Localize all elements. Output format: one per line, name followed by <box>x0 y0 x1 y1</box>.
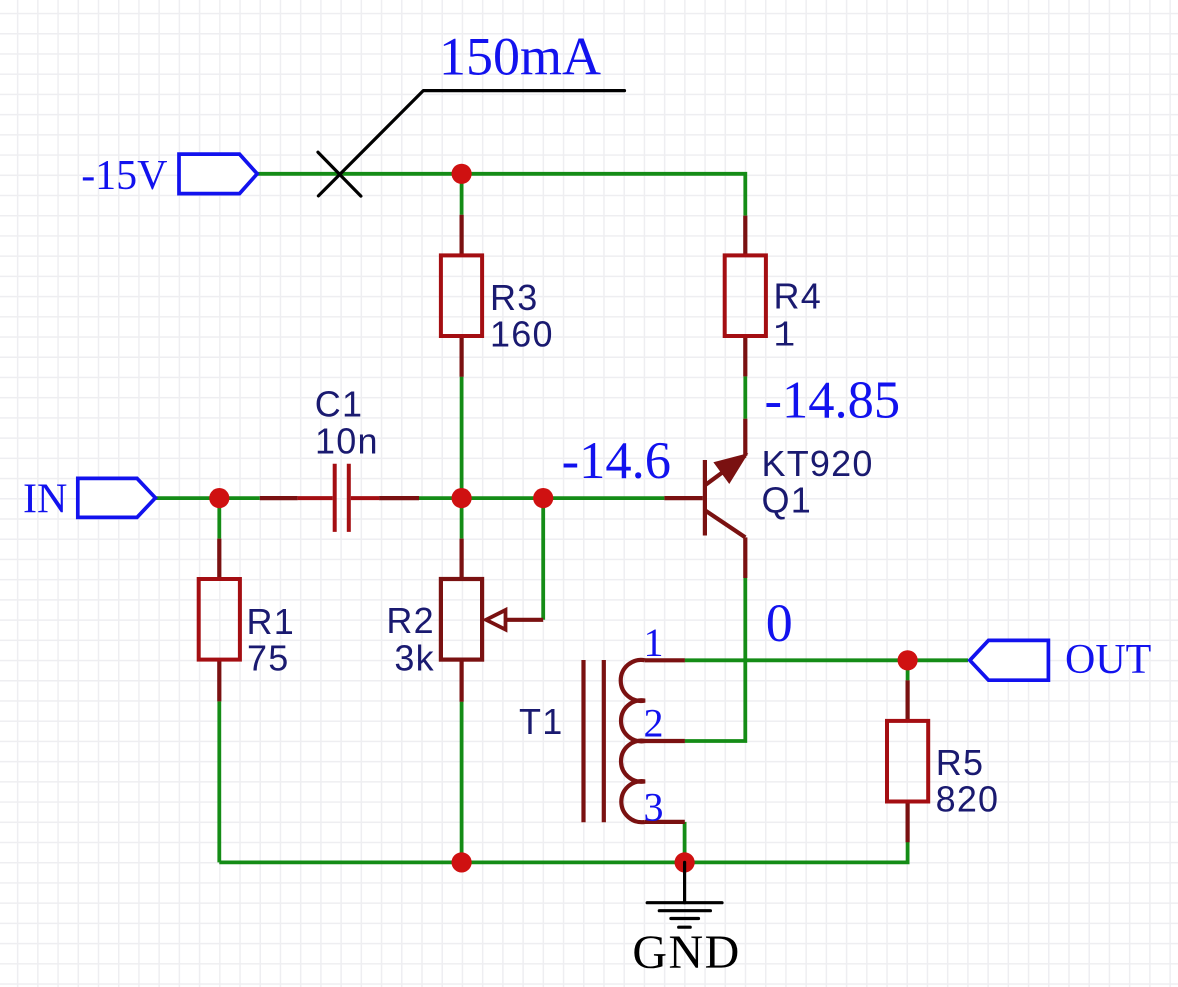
capacitor C1 plates and leads <box>335 464 349 532</box>
svg-text:-14.85: -14.85 <box>765 371 901 429</box>
transistor Q1 arrow <box>715 455 745 482</box>
svg-text:R2: R2 <box>386 600 434 641</box>
svg-text:GND: GND <box>632 926 741 979</box>
junction dot at wiper tap <box>533 488 553 508</box>
wire T1 pin3 to bus <box>683 822 687 863</box>
svg-text:-14.6: -14.6 <box>562 432 671 490</box>
wiper arrow of R2 <box>486 610 506 630</box>
svg-text:3k: 3k <box>394 638 434 679</box>
transistor Q1 base pin <box>664 496 702 500</box>
resistor R3 <box>441 255 482 336</box>
wire emitter to T1 pin2 <box>685 578 746 741</box>
wire bottom bus to R5 <box>219 842 907 863</box>
resistor R3 pins <box>460 215 464 377</box>
transformer T1 pin 1 lead <box>645 658 685 662</box>
svg-text:150mA: 150mA <box>439 27 601 87</box>
svg-text:-15V: -15V <box>81 153 167 199</box>
svg-text:R3: R3 <box>490 277 538 318</box>
svg-text:75: 75 <box>247 638 289 679</box>
wire T1 pin1 to OUT <box>685 658 968 662</box>
wire R3 bottom to mid node <box>460 377 464 499</box>
resistor R4 <box>725 255 766 336</box>
ground symbol stem <box>683 862 686 902</box>
svg-text:10n: 10n <box>315 420 379 461</box>
svg-text:820: 820 <box>936 778 1000 819</box>
wire R2 bottom to bus <box>460 702 464 863</box>
svg-text:C1: C1 <box>315 384 363 425</box>
probe X marker <box>318 152 361 196</box>
svg-text:3: 3 <box>644 784 664 829</box>
wire R4 bottom to collector <box>743 376 747 419</box>
transformer T1 pin 2 lead <box>645 739 685 743</box>
junction dot OUT / R5 <box>898 650 918 670</box>
port OUT <box>970 640 1049 680</box>
svg-text:2: 2 <box>644 701 664 746</box>
potentiometer R2 <box>441 579 482 660</box>
potentiometer R2 pins <box>460 539 464 702</box>
wire R1 bottom to bus <box>217 701 221 862</box>
resistor R1 <box>199 579 240 660</box>
junction dot bus / GND <box>675 852 695 872</box>
resistor R5 pins <box>905 680 909 842</box>
svg-text:IN: IN <box>23 477 67 523</box>
svg-text:R5: R5 <box>936 742 984 783</box>
svg-text:KT920: KT920 <box>762 443 874 484</box>
junction dot bus / R2 <box>452 852 472 872</box>
wiper arm of R2 <box>505 618 543 622</box>
svg-text:T1: T1 <box>519 701 563 742</box>
transistor Q1 collector pin <box>743 419 747 456</box>
svg-text:160: 160 <box>490 313 554 354</box>
transformer T1 pin 3 lead <box>645 820 685 824</box>
transformer T1 winding <box>621 660 645 822</box>
svg-text:Q1: Q1 <box>762 479 812 520</box>
svg-text:1: 1 <box>644 620 664 665</box>
wire wiper drop <box>541 498 545 620</box>
svg-text:R1: R1 <box>247 601 295 642</box>
junction dot at mid node R3/R2 <box>452 488 472 508</box>
wire R2 top stub <box>460 498 464 538</box>
wire R5 top stub <box>906 660 910 680</box>
svg-text:R4: R4 <box>774 276 822 317</box>
transformer T1 core <box>584 660 604 822</box>
junction dot at IN / R1 <box>209 488 229 508</box>
port IN <box>78 478 156 517</box>
junction dot at -15V rail / R3 <box>452 164 472 184</box>
ground symbol bars <box>647 901 722 904</box>
resistor R4 pins <box>743 216 747 377</box>
wire IN to C1 <box>155 496 259 500</box>
svg-text:0: 0 <box>766 593 793 653</box>
wire top rail from -15V port to R4 corner <box>256 174 745 216</box>
wire R3 top stub <box>460 174 464 215</box>
svg-text:1: 1 <box>774 315 797 356</box>
transistor Q1 body <box>703 460 707 536</box>
capacitor C1 pins <box>260 496 419 500</box>
transistor Q1 emitter pin <box>743 537 747 578</box>
resistor R5 <box>887 721 928 802</box>
wire C1 to Q1 base <box>419 496 664 500</box>
port -15V <box>179 154 257 194</box>
wire R1 top stub <box>217 498 221 538</box>
svg-text:OUT: OUT <box>1065 637 1151 683</box>
probe annotation line <box>318 91 624 196</box>
resistor R1 pins <box>217 539 221 702</box>
